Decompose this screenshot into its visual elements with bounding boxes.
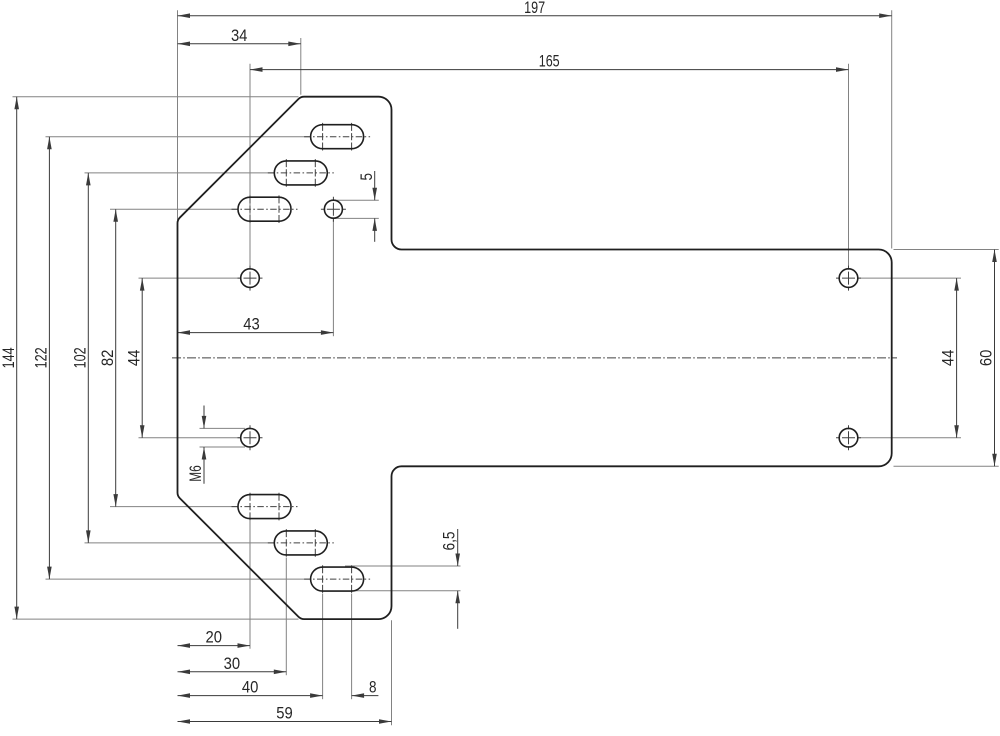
svg-text:M6: M6 xyxy=(186,465,205,482)
circle CR2 crosshair xyxy=(836,437,861,439)
svg-text:40: 40 xyxy=(242,678,259,697)
dimension 40 xyxy=(178,695,323,697)
svg-text:122: 122 xyxy=(32,347,51,368)
dimension 34 xyxy=(178,43,301,45)
slot S5 outline xyxy=(274,531,327,555)
dimension 102 xyxy=(87,173,89,543)
svg-text:20: 20 xyxy=(206,628,223,647)
svg-text:44: 44 xyxy=(124,350,143,367)
slot S4 centerlines xyxy=(232,506,298,508)
plate outline xyxy=(178,97,892,619)
circle CR1 outline xyxy=(839,269,858,288)
dimension 5 xyxy=(374,171,376,200)
svg-text:144: 144 xyxy=(0,347,18,368)
dimension 165 xyxy=(250,69,849,71)
slot S3 centerlines xyxy=(232,208,298,210)
circle C5 crosshair xyxy=(321,208,346,210)
dimension 60 xyxy=(994,250,996,467)
dimension 43 xyxy=(178,332,334,334)
slot S5 centerlines xyxy=(268,542,334,544)
svg-text:5: 5 xyxy=(357,173,376,181)
dimension 197 xyxy=(178,15,892,17)
slot S2 outline xyxy=(274,161,327,185)
circle CL1 outline xyxy=(241,269,260,288)
dimension 30 xyxy=(178,671,287,673)
circle C5 outline xyxy=(324,200,342,218)
dimension 6,5 xyxy=(457,529,459,566)
slot S4 outline xyxy=(238,495,291,519)
dimension M6 xyxy=(203,406,205,429)
dimension 122 xyxy=(48,137,50,579)
slot S3 outline xyxy=(238,197,291,221)
svg-text:59: 59 xyxy=(276,704,293,723)
circle CR1 crosshair xyxy=(836,277,861,279)
svg-text:102: 102 xyxy=(70,347,89,368)
svg-text:60: 60 xyxy=(977,350,996,367)
svg-text:197: 197 xyxy=(524,0,545,17)
svg-text:8: 8 xyxy=(369,678,377,697)
slot S6 outline xyxy=(311,567,364,591)
circle CL2 M6 crosshair xyxy=(238,437,263,439)
slot S6 centerlines xyxy=(304,578,370,580)
dimension 8 xyxy=(352,695,379,697)
slot S1 outline xyxy=(311,125,364,149)
main horizontal centerline xyxy=(172,357,897,359)
dimension 44 xyxy=(956,278,958,438)
dimension 82 xyxy=(115,209,117,506)
svg-text:30: 30 xyxy=(224,654,241,673)
dimension 44 xyxy=(141,278,143,438)
svg-text:34: 34 xyxy=(231,26,248,45)
svg-text:6,5: 6,5 xyxy=(439,532,458,551)
circle CR2 outline xyxy=(839,428,858,447)
dimension 144 xyxy=(16,97,18,619)
dimension 59 xyxy=(178,721,392,723)
circle CL2 M6 outline xyxy=(241,428,260,447)
svg-text:82: 82 xyxy=(98,350,117,367)
extension lines xyxy=(177,10,179,220)
svg-text:43: 43 xyxy=(243,315,260,334)
slot S1 centerlines xyxy=(304,136,370,138)
svg-text:165: 165 xyxy=(539,52,560,71)
svg-text:44: 44 xyxy=(939,350,958,367)
slot S2 centerlines xyxy=(268,172,334,174)
dimension 20 xyxy=(178,645,251,647)
circle CL1 crosshair xyxy=(238,277,263,279)
